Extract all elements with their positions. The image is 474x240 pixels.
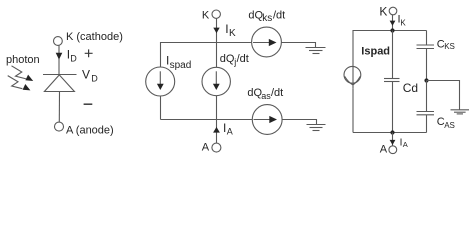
wire K junction down to Cd <box>392 31 394 79</box>
svg-text:/dt: /dt <box>271 87 283 99</box>
current source Ispad (right) <box>344 66 361 83</box>
junction dot K rail <box>390 28 394 32</box>
ground 1 (top middle) <box>306 47 326 49</box>
top rail (middle figure) <box>161 43 252 68</box>
svg-text:K: K <box>379 5 387 19</box>
label + <box>85 49 93 57</box>
node K (left figure) <box>54 37 63 46</box>
svg-text:K: K <box>229 28 236 39</box>
current arrow IA head (middle, up) <box>213 127 220 133</box>
svg-text:photon: photon <box>6 54 40 66</box>
svg-text:K: K <box>202 10 210 22</box>
svg-text:A: A <box>227 127 233 137</box>
svg-text:D: D <box>70 54 77 64</box>
wire K down to top rail <box>216 19 218 43</box>
capacitor CAS <box>426 81 428 112</box>
wire junction to right ground <box>427 81 460 110</box>
svg-text:K (cathode): K (cathode) <box>66 31 123 43</box>
svg-text:spad: spad <box>170 60 192 71</box>
capacitor CKS branch <box>426 31 428 46</box>
ground 2 (bottom middle) <box>307 124 326 126</box>
svg-text:KS: KS <box>444 42 455 51</box>
svg-text:as: as <box>261 91 271 101</box>
current source dQKS/dt <box>252 27 282 57</box>
wire dQKS to ground <box>281 43 315 48</box>
node A (left figure) <box>55 122 64 131</box>
svg-text:Cd: Cd <box>403 81 418 95</box>
middle figure: node K <box>212 10 220 18</box>
svg-text:/dt: /dt <box>273 10 285 22</box>
node A (middle figure) <box>212 143 221 152</box>
capacitor Cd <box>384 78 400 80</box>
svg-text:/dt: /dt <box>237 53 249 65</box>
wire Ispad to bottom rail <box>160 96 162 120</box>
svg-text:dQ: dQ <box>248 10 263 22</box>
wire Cd to bottom rail <box>392 82 394 133</box>
right figure: node K <box>389 7 397 15</box>
current arrow IK head (middle) <box>213 28 219 34</box>
label − <box>84 103 93 105</box>
svg-text:K: K <box>400 18 406 27</box>
wire Ispad to bottom rail (right) <box>352 88 354 132</box>
current arrow IA head (right, down) <box>390 140 396 145</box>
bottom rail (middle figure) <box>161 119 253 121</box>
junction dot A rail <box>390 130 394 134</box>
ground 3 (right) <box>451 109 470 111</box>
svg-text:ks: ks <box>262 13 272 24</box>
svg-text:V: V <box>82 68 90 82</box>
wire K to diode <box>58 46 60 75</box>
junction dot CKS-CAS <box>424 78 428 82</box>
wire rail down to node A (right) <box>392 133 394 146</box>
wire bottom rail to node A (middle) <box>216 120 218 144</box>
svg-text:dQ: dQ <box>220 53 235 65</box>
svg-text:dQ: dQ <box>247 87 262 99</box>
wire dQAS to ground <box>282 120 317 125</box>
photodiode D1 triangle <box>44 75 74 92</box>
top rail (right figure) <box>353 31 427 68</box>
svg-text:D: D <box>91 74 98 84</box>
photon arrow 2 <box>8 76 23 89</box>
svg-text:A: A <box>403 140 408 149</box>
current arrow IK head (right) <box>390 21 396 26</box>
bottom rail (right figure) <box>353 132 427 134</box>
photodiode D1 cathode bar <box>43 74 77 76</box>
svg-text:A: A <box>380 144 388 156</box>
wire K down to rail (right) <box>392 15 394 31</box>
svg-text:AS: AS <box>444 121 455 130</box>
photon arrow 1 <box>12 66 27 79</box>
current source dQAS/dt <box>252 105 282 135</box>
svg-text:Ispad: Ispad <box>361 45 390 57</box>
wire rail to dQj source <box>216 43 218 68</box>
current source Ispad (middle) <box>146 67 175 96</box>
current arrow ID head <box>56 53 63 60</box>
svg-text:A: A <box>202 142 210 154</box>
current source dQj/dt <box>202 67 230 95</box>
wire diode to A <box>58 92 60 123</box>
svg-text:A (anode): A (anode) <box>66 125 114 137</box>
wire dQj to bottom rail <box>216 96 218 120</box>
node A (right figure) <box>389 146 397 154</box>
